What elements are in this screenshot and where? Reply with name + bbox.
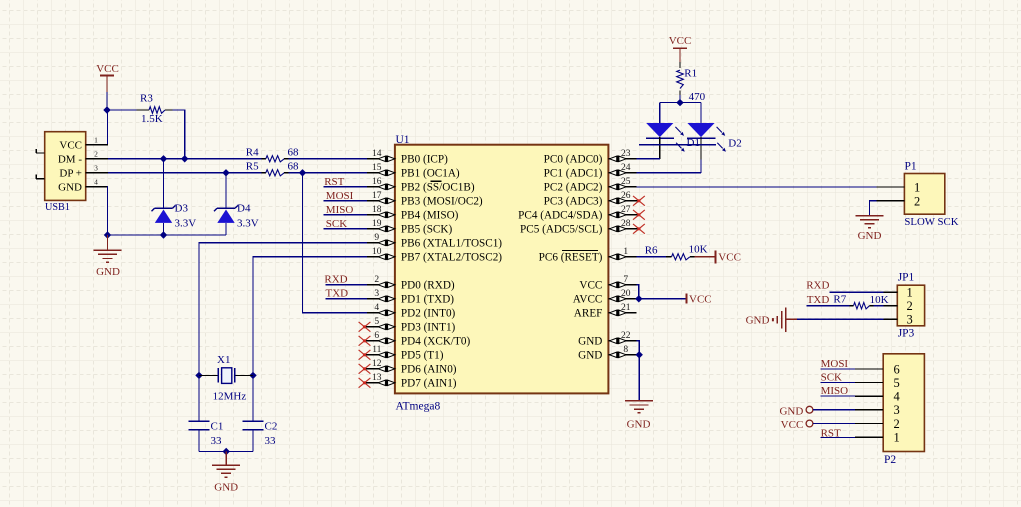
svg-text:1: 1 [894, 431, 900, 445]
no-ERC mark pin 12 [359, 364, 371, 374]
pin 1 of USB1 [86, 144, 108, 146]
pin 8 GND of U1 (right) [608, 354, 636, 356]
svg-text:TXD: TXD [807, 294, 830, 306]
svg-text:GND: GND [858, 230, 882, 242]
wire LED top rail [660, 102, 701, 104]
svg-text:PB4 (MISO): PB4 (MISO) [401, 210, 459, 222]
no-ERC mark pin 27 [633, 210, 645, 220]
zener diode D3 [163, 159, 165, 209]
svg-text:26: 26 [621, 191, 631, 201]
resistor R1 [679, 62, 681, 68]
pin 26 PC3 of U1 (right) [608, 200, 639, 202]
junction R3/DM [181, 155, 188, 162]
svg-text:6: 6 [894, 362, 900, 376]
svg-text:PB1 (OC1A): PB1 (OC1A) [401, 168, 460, 180]
pin 10 PB7 of U1 [367, 256, 395, 258]
wire MISO [324, 214, 367, 216]
IC U1 body [395, 145, 609, 394]
junction crystal right [249, 372, 256, 379]
pin 11 PD5 of U1 [365, 354, 395, 356]
power port VCC (reset) [715, 250, 717, 263]
svg-text:20: 20 [621, 289, 631, 299]
svg-text:PC5 (ADC5/SCL): PC5 (ADC5/SCL) [520, 224, 603, 236]
svg-text:GND: GND [96, 266, 120, 278]
resistor R5 [262, 172, 266, 174]
pin 14 PB0 of U1 [367, 158, 395, 160]
svg-text:P2: P2 [884, 454, 896, 466]
svg-text:PD3 (INT1): PD3 (INT1) [401, 322, 456, 334]
svg-text:5: 5 [374, 317, 379, 327]
svg-text:4: 4 [894, 389, 901, 403]
pin 2 of P1 [877, 200, 905, 202]
pin 2 of JP1 [884, 305, 898, 307]
svg-text:5: 5 [894, 376, 900, 390]
svg-text:PC2 (ADC2): PC2 (ADC2) [544, 182, 603, 194]
wire MISO to P2 [821, 395, 856, 397]
pin 12 PD6 of U1 [365, 368, 395, 370]
svg-text:1.5K: 1.5K [141, 113, 163, 125]
svg-text:PB2 (SS/OC1B): PB2 (SS/OC1B) [401, 182, 475, 194]
svg-text:PC3 (ADC3): PC3 (ADC3) [544, 196, 603, 208]
svg-text:DM -: DM - [58, 154, 82, 166]
svg-text:23: 23 [621, 149, 631, 159]
wire PB6 to crystal left [199, 243, 367, 376]
wire R6 to VCC [695, 256, 716, 258]
wire RXD to JP1 [830, 291, 884, 293]
pin 9 PB6 of U1 [367, 242, 395, 244]
pin 4 of P2 [855, 395, 883, 397]
pin 15 PB1 of U1 [367, 172, 395, 174]
overline SS on PB2 [430, 180, 441, 182]
svg-text:PD7 (AIN1): PD7 (AIN1) [401, 378, 457, 390]
LED D1 [646, 123, 673, 137]
no-ERC mark pin 13 [359, 378, 371, 388]
pin 27 PC4 of U1 (right) [608, 214, 639, 216]
pin 23 PC0 of U1 (right) [608, 158, 636, 160]
pin 3 of USB1 [86, 172, 108, 174]
svg-text:1: 1 [623, 247, 628, 257]
pin 5 PD3 of U1 [365, 326, 395, 328]
svg-text:PD2 (INT0): PD2 (INT0) [401, 308, 456, 320]
svg-text:25: 25 [621, 177, 631, 187]
junction VCC/R3 [103, 106, 110, 113]
ground GND (USB) [107, 235, 109, 250]
svg-text:D3: D3 [175, 203, 189, 215]
wire pin22 GND [636, 341, 639, 355]
svg-text:12: 12 [372, 359, 382, 369]
svg-text:SCK: SCK [326, 218, 347, 230]
junction GND rail / D3 [160, 231, 167, 238]
svg-text:PB3 (MOSI/OC2): PB3 (MOSI/OC2) [401, 196, 483, 208]
crystal X1 [199, 374, 218, 376]
svg-text:470: 470 [689, 91, 706, 103]
junction crystal left [195, 372, 202, 379]
svg-text:1: 1 [914, 181, 920, 195]
svg-text:13: 13 [372, 373, 382, 383]
svg-text:2: 2 [94, 150, 98, 159]
svg-text:PB0 (ICP): PB0 (ICP) [401, 154, 448, 166]
svg-text:PD6 (AIN0): PD6 (AIN0) [401, 364, 457, 376]
junction GND pins [636, 351, 643, 358]
wire R5 to PB1 [289, 172, 367, 174]
pin 3 PD1 of U1 [367, 298, 395, 300]
wire PC0 to D1 [636, 158, 659, 160]
svg-text:3: 3 [374, 289, 379, 299]
zener diode D4 [225, 173, 227, 209]
connector USB1 [45, 132, 86, 201]
pin 18 PB4 of U1 [367, 214, 395, 216]
resistor R6 [636, 256, 666, 258]
wire SCK [324, 228, 367, 230]
wire R1 to LEDs [679, 95, 681, 103]
LED D2 [687, 123, 714, 137]
svg-text:JP3: JP3 [898, 328, 915, 340]
resistor R3 [107, 109, 137, 111]
no-ERC mark pin 6 [359, 336, 371, 346]
pin 16 PB2 of U1 [367, 186, 395, 188]
wire P1 pin2 to GND [869, 201, 876, 216]
svg-text:C1: C1 [211, 420, 224, 432]
svg-text:USB1: USB1 [45, 202, 70, 213]
svg-text:PC4 (ADC4/SDA): PC4 (ADC4/SDA) [518, 210, 603, 222]
svg-text:GND: GND [578, 336, 602, 348]
pin 7 VCC of U1 (right) [608, 284, 636, 286]
svg-text:R6: R6 [645, 244, 658, 256]
pin 1 of P1 [877, 186, 905, 188]
svg-text:R1: R1 [684, 67, 697, 79]
svg-text:16: 16 [372, 177, 382, 187]
wire RST to P2 pin1 [821, 436, 856, 438]
pin 1 of P2 [855, 436, 883, 438]
svg-text:DP +: DP + [59, 168, 82, 180]
svg-text:33: 33 [265, 435, 277, 447]
svg-text:8: 8 [623, 345, 628, 355]
pin 5 of P2 [855, 382, 883, 384]
svg-text:68: 68 [288, 160, 300, 172]
svg-text:15: 15 [372, 163, 382, 173]
svg-text:3: 3 [94, 164, 98, 173]
svg-text:D4: D4 [237, 203, 251, 215]
junction DP/D4 [222, 169, 229, 176]
svg-text:2: 2 [374, 275, 379, 285]
pin 20 AVCC of U1 (right) [608, 298, 636, 300]
svg-text:18: 18 [372, 205, 382, 215]
svg-text:7: 7 [623, 275, 628, 285]
USB1 shield stub lower [36, 178, 45, 180]
svg-text:1: 1 [907, 286, 913, 300]
pin 25 PC2 of U1 (right) [608, 186, 636, 188]
junction R1/LED split [676, 99, 683, 106]
no-ERC mark pin 26 [633, 196, 645, 206]
svg-text:PC6 (RESET): PC6 (RESET) [539, 252, 603, 264]
wire MOSI to P2 [821, 368, 856, 370]
capacitor C1 [198, 375, 200, 421]
svg-text:JP1: JP1 [898, 271, 915, 283]
wire D+ branch to PD2 INT0 [303, 173, 367, 313]
junction DM/D3 [160, 155, 167, 162]
junction GND rail / stem [104, 231, 111, 238]
svg-text:2: 2 [907, 299, 913, 313]
svg-text:14: 14 [372, 149, 382, 159]
svg-text:68: 68 [288, 146, 300, 158]
pin 2 of USB1 [86, 158, 108, 160]
pin 17 PB3 of U1 [367, 200, 395, 202]
svg-text:PD4 (XCK/T0): PD4 (XCK/T0) [401, 336, 471, 348]
junction DP/INT0 branch [299, 169, 306, 176]
pin 22 GND of U1 (right) [608, 340, 636, 342]
wire PC1 to D2 [636, 172, 701, 174]
ground GND (P1) [856, 215, 884, 217]
wire DM- to R4 [108, 158, 262, 160]
connector JP1 [897, 285, 924, 326]
wire VCC stem [106, 92, 108, 110]
pin 2 of P2 [855, 423, 883, 425]
pin 4 of USB1 [86, 186, 108, 188]
svg-text:RXD: RXD [806, 280, 829, 292]
svg-text:4: 4 [94, 178, 98, 187]
svg-text:27: 27 [621, 205, 631, 215]
svg-text:D2: D2 [728, 137, 741, 149]
svg-text:17: 17 [372, 191, 382, 201]
pin 19 PB5 of U1 [367, 228, 395, 230]
svg-text:RXD: RXD [324, 273, 347, 285]
ground GND (U1) [625, 400, 653, 402]
wire R4 to PB0 [289, 158, 367, 160]
power port VCC (AVCC) [686, 294, 688, 304]
svg-text:AVCC: AVCC [573, 294, 603, 306]
svg-text:VCC: VCC [669, 35, 692, 47]
wire GND to P2 pin3 [813, 409, 855, 411]
svg-text:MOSI: MOSI [821, 358, 849, 370]
wire pin8 GND down [638, 355, 640, 401]
wire MOSI [324, 200, 367, 202]
svg-text:PB6 (XTAL1/TOSC1): PB6 (XTAL1/TOSC1) [401, 238, 502, 250]
svg-text:VCC: VCC [579, 280, 602, 292]
ground GND (crystal) [225, 452, 227, 466]
svg-text:21: 21 [621, 303, 631, 313]
svg-text:12MHz: 12MHz [213, 391, 247, 403]
wire gnd to JP1 pin3 [797, 318, 884, 320]
pin 4 PD2 of U1 [367, 312, 395, 314]
svg-text:AREF: AREF [574, 308, 603, 320]
svg-text:3.3V: 3.3V [237, 217, 259, 229]
junction VCC/AVCC [635, 295, 642, 302]
svg-text:MISO: MISO [821, 385, 849, 397]
svg-text:RST: RST [324, 176, 344, 188]
svg-text:10K: 10K [689, 244, 708, 256]
svg-text:VCC: VCC [59, 140, 82, 152]
no-ERC mark pin 5 [359, 322, 371, 332]
svg-text:10K: 10K [870, 294, 889, 306]
svg-text:PB7 (XTAL2/TOSC2): PB7 (XTAL2/TOSC2) [401, 252, 502, 264]
connector P1 [904, 174, 944, 215]
svg-text:1: 1 [94, 136, 98, 145]
svg-text:GND: GND [746, 314, 770, 326]
pin 6 PD4 of U1 [365, 340, 395, 342]
svg-text:VCC: VCC [718, 251, 741, 263]
svg-text:2: 2 [914, 194, 920, 208]
svg-text:X1: X1 [217, 354, 230, 366]
wire PC2 to P1 pin1 [636, 186, 876, 188]
svg-text:GND: GND [214, 481, 238, 493]
overline RESET on PC6 [562, 249, 598, 251]
svg-text:9: 9 [374, 233, 379, 243]
pin 28 PC5 of U1 (right) [608, 228, 639, 230]
wire TXD [326, 298, 367, 300]
svg-text:R3: R3 [140, 93, 153, 105]
svg-text:P1: P1 [905, 160, 917, 172]
pin 6 of P2 [855, 368, 883, 370]
svg-text:GND: GND [779, 405, 803, 417]
resistor R4 [262, 158, 266, 160]
junction crystal gnd [223, 448, 230, 455]
svg-text:PD5 (T1): PD5 (T1) [401, 350, 444, 362]
wire DP+ to R5 [108, 172, 262, 174]
svg-text:U1: U1 [396, 134, 410, 146]
svg-text:PB5 (SCK): PB5 (SCK) [401, 224, 453, 236]
svg-text:TXD: TXD [326, 287, 349, 299]
wire VCC to P2 pin2 [813, 423, 855, 425]
wire crystal gnd rail [199, 451, 253, 453]
wire AVCC to VCC port [636, 298, 686, 300]
svg-text:MOSI: MOSI [326, 190, 354, 202]
svg-text:R4: R4 [246, 146, 259, 158]
svg-text:4: 4 [374, 303, 379, 313]
pin 2 PD0 of U1 [367, 284, 395, 286]
svg-text:PC0 (ADC0): PC0 (ADC0) [544, 154, 603, 166]
pin 3 of JP1 [884, 318, 898, 320]
svg-text:MISO: MISO [326, 204, 354, 216]
svg-text:PD1 (TXD): PD1 (TXD) [401, 294, 454, 306]
svg-text:R5: R5 [246, 160, 259, 172]
svg-text:33: 33 [211, 435, 223, 447]
no-ERC mark pin 11 [359, 350, 371, 360]
svg-text:VCC: VCC [781, 419, 804, 431]
svg-text:28: 28 [621, 219, 631, 229]
svg-text:SCK: SCK [821, 372, 842, 384]
svg-text:3: 3 [907, 313, 913, 327]
pin 24 PC1 of U1 (right) [608, 172, 636, 174]
svg-text:PD0 (RXD): PD0 (RXD) [401, 280, 455, 292]
svg-text:ATmega8: ATmega8 [396, 400, 441, 412]
svg-text:3: 3 [894, 403, 900, 417]
USB1 shield stub upper [36, 152, 45, 154]
svg-text:GND: GND [58, 182, 82, 194]
pin 3 of P2 [855, 409, 883, 411]
svg-text:R7: R7 [833, 294, 846, 306]
svg-text:SLOW SCK: SLOW SCK [904, 216, 958, 228]
pin 1 PC6 of U1 (right) [608, 256, 636, 258]
wire RST [324, 186, 367, 188]
svg-text:C2: C2 [265, 420, 278, 432]
wire R3 to DM line [173, 110, 185, 159]
svg-text:GND: GND [627, 419, 651, 431]
svg-text:VCC: VCC [689, 294, 712, 306]
svg-text:10: 10 [372, 247, 382, 257]
wire pin7 VCC [636, 285, 638, 299]
wire PB7 to crystal right [253, 257, 367, 376]
svg-text:2: 2 [894, 417, 900, 431]
wire SCK to P2 [821, 382, 856, 384]
svg-text:6: 6 [374, 331, 379, 341]
capacitor C2 [252, 375, 254, 421]
svg-text:PC1 (ADC1): PC1 (ADC1) [544, 168, 603, 180]
svg-text:VCC: VCC [96, 63, 119, 75]
svg-text:24: 24 [621, 163, 631, 173]
wire VCC to USB1 pin1 [107, 110, 109, 145]
svg-text:3.3V: 3.3V [175, 217, 197, 229]
connector P2 [883, 354, 924, 452]
no-ERC mark pin 28 [633, 224, 645, 234]
wire USB GND rail [108, 187, 227, 235]
pin 21 AREF of U1 (right) [608, 312, 636, 314]
wire RXD [326, 284, 367, 286]
wire LED cathode cross bar [639, 144, 716, 146]
svg-text:11: 11 [372, 345, 381, 355]
pin 1 of JP1 [884, 291, 898, 293]
svg-text:GND: GND [578, 350, 602, 362]
pin 13 PD7 of U1 [365, 382, 395, 384]
svg-text:22: 22 [621, 331, 631, 341]
svg-text:19: 19 [372, 219, 382, 229]
